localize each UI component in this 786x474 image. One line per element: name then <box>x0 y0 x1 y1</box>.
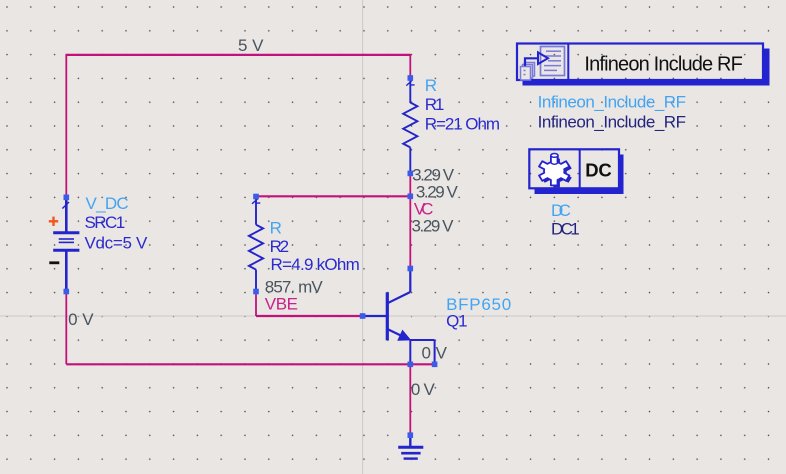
svg-text:5 V: 5 V <box>238 36 264 55</box>
svg-text:0 V: 0 V <box>422 344 448 363</box>
wire R2 bottom VBE vertical <box>255 292 257 317</box>
wire top 5V rail <box>66 54 410 56</box>
svg-text:SRC1: SRC1 <box>85 213 126 232</box>
DC block divider <box>579 149 581 188</box>
node at battery top <box>64 195 70 201</box>
wire emitter left drop (blue) <box>409 340 411 364</box>
node at battery bottom <box>64 289 70 295</box>
node VC junction <box>408 194 414 200</box>
node at R1 bottom <box>408 171 414 177</box>
node at R2 bottom <box>253 289 259 295</box>
svg-text:VBE: VBE <box>265 294 298 313</box>
svg-text:Infineon_Include_RF: Infineon_Include_RF <box>538 113 686 132</box>
origin axis horizontal <box>0 315 786 317</box>
svg-text:R=4.9 kOhm: R=4.9 kOhm <box>271 255 360 274</box>
wire top-right drop to R1 <box>409 54 411 78</box>
node at base <box>360 313 366 319</box>
resistor R1 <box>403 78 417 173</box>
emitter arrow of Q1 <box>398 331 410 341</box>
node at R2 top <box>253 194 259 200</box>
resistor R2 <box>249 197 263 292</box>
DC block box <box>529 149 619 188</box>
wire VC node to collector <box>409 196 411 268</box>
svg-text:Vdc=5 V: Vdc=5 V <box>85 233 149 252</box>
svg-text:3.29 V: 3.29 V <box>412 216 455 235</box>
svg-text:R2: R2 <box>270 237 290 256</box>
svg-text:R=21 Ohm: R=21 Ohm <box>425 115 500 134</box>
wire emitter top horizontal (blue) <box>410 339 434 341</box>
transistor Q1 BFP650 <box>363 269 411 341</box>
voltage source V_DC SRC1 <box>53 197 79 291</box>
ground <box>398 435 423 458</box>
svg-text:Infineon Include RF: Infineon Include RF <box>584 53 743 75</box>
svg-text:R1: R1 <box>425 95 445 114</box>
plus sign of SRC1 <box>49 217 58 226</box>
Infineon icon big page <box>541 47 565 76</box>
svg-text:R: R <box>425 76 437 95</box>
wire VBE horizontal to base <box>256 315 363 317</box>
wire battery bottom to corner <box>65 292 67 365</box>
node at R1 top <box>408 75 414 81</box>
svg-text:R: R <box>270 219 282 238</box>
wire emitter right drop (blue) <box>434 340 436 364</box>
node at ground <box>408 432 414 438</box>
Infineon icon arrow <box>525 58 538 66</box>
Infineon block divider <box>567 44 569 81</box>
wire left rail <box>65 54 67 197</box>
svg-text:Q1: Q1 <box>446 312 468 331</box>
svg-text:Infineon_Include_RF: Infineon_Include_RF <box>538 92 686 111</box>
DC block shadow <box>535 155 624 195</box>
svg-text:DC: DC <box>551 201 571 220</box>
node at collector <box>408 266 414 272</box>
Infineon Include RF block shadow <box>523 49 770 86</box>
minus sign of SRC1 <box>49 261 59 264</box>
node emitter left junction <box>408 362 414 368</box>
svg-text:0 V: 0 V <box>68 310 94 329</box>
Infineon icon page stack <box>521 63 535 81</box>
svg-text:V_DC: V_DC <box>86 194 129 213</box>
DC gear icon <box>539 154 572 188</box>
node emitter right junction <box>432 362 438 368</box>
svg-text:DC1: DC1 <box>551 220 580 239</box>
origin axis vertical <box>362 0 364 474</box>
wire R1 bottom to VC node <box>409 173 411 196</box>
Infineon Include RF block box <box>517 44 763 81</box>
wire bottom rail <box>66 363 434 365</box>
svg-text:0 V: 0 V <box>411 380 436 399</box>
wire VC horizontal from R2 top <box>256 195 410 197</box>
svg-text:DC: DC <box>585 159 612 180</box>
wire emitter node to ground <box>409 364 411 435</box>
